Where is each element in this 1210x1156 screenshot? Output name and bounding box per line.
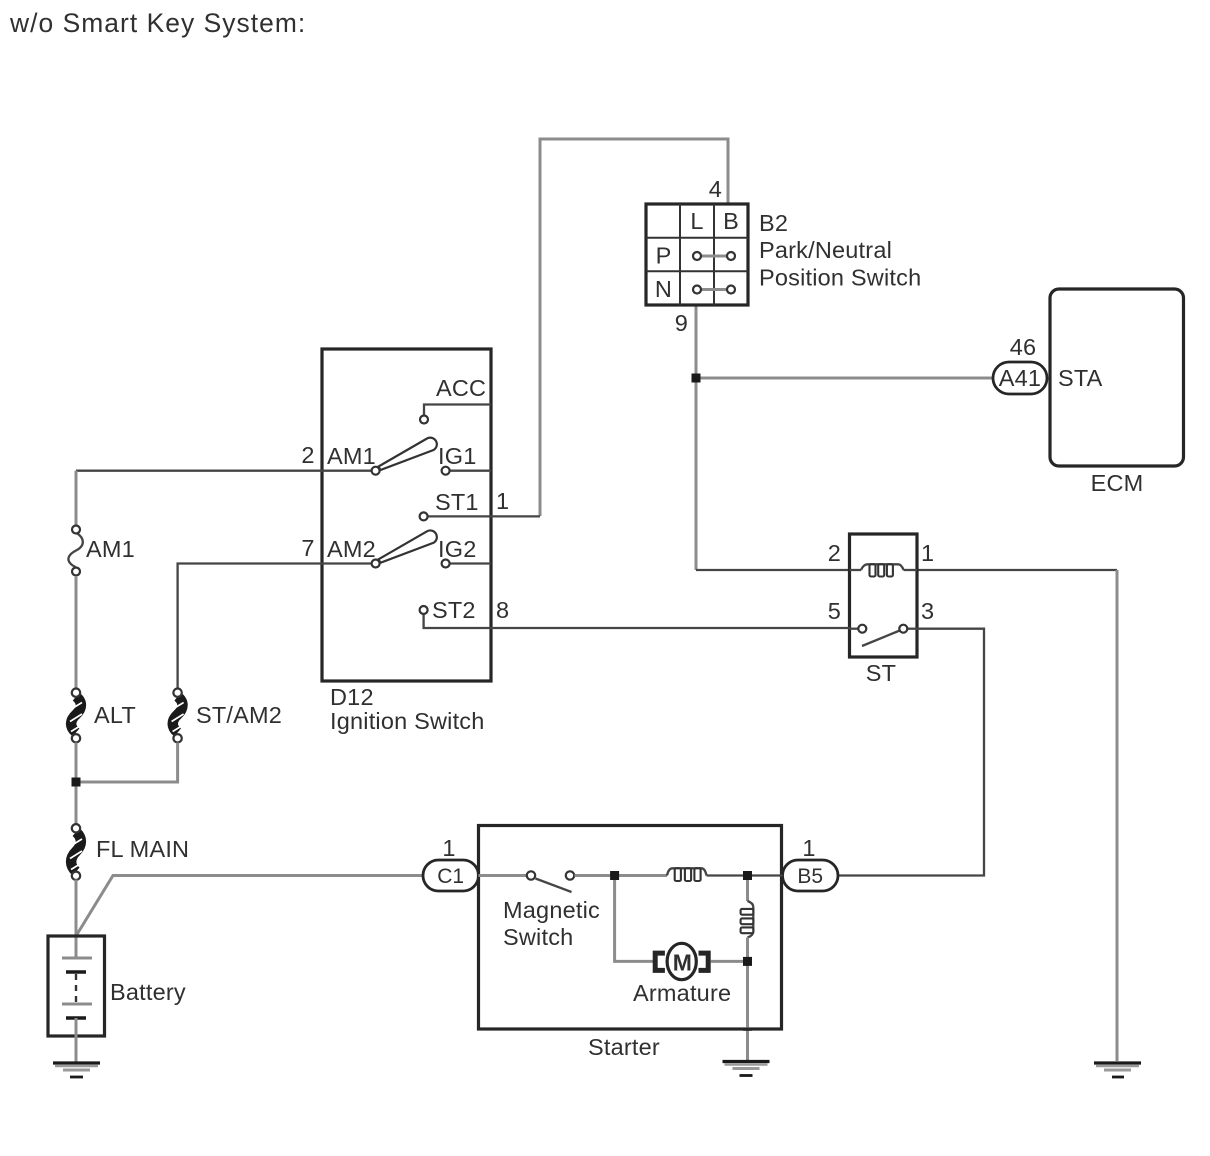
connector B5 — [783, 860, 839, 891]
svg-text:9: 9 — [675, 310, 688, 336]
svg-text:P: P — [656, 243, 672, 269]
svg-text:2: 2 — [301, 442, 314, 468]
svg-text:ECM: ECM — [1091, 470, 1144, 496]
svg-text:Starter: Starter — [588, 1034, 660, 1060]
relay ST box — [850, 534, 918, 657]
ignition switch D12 box — [322, 349, 491, 681]
svg-text:C1: C1 — [437, 865, 464, 888]
connector A41 — [993, 362, 1047, 394]
contact P row — [693, 252, 735, 260]
coil hold-in (vertical) — [741, 876, 754, 961]
contact N row — [693, 286, 735, 294]
label B2 Park/Neutral Position Switch — [759, 210, 921, 291]
contact ST2 and wire to relay pin 5 — [420, 597, 850, 628]
svg-text:1: 1 — [496, 488, 509, 514]
svg-text:B5: B5 — [797, 865, 823, 888]
wire junction to connector A41 — [696, 377, 993, 380]
ground starter — [723, 1062, 770, 1076]
ground right — [1094, 1063, 1141, 1077]
svg-text:AM1: AM1 — [327, 443, 376, 469]
svg-text:7: 7 — [301, 535, 314, 561]
wire AM1 net (pin 2) — [76, 470, 372, 472]
key wedge AM2-IG2 — [379, 530, 437, 562]
svg-text:1: 1 — [921, 540, 934, 566]
svg-text:FL MAIN: FL MAIN — [96, 836, 189, 862]
fuse AM1 — [68, 526, 82, 576]
wire AM1 vertical chain — [75, 471, 78, 526]
wire battery positive run to starter C1 — [76, 876, 423, 937]
svg-text:ST1: ST1 — [435, 489, 479, 515]
wire junction to FL MAIN — [75, 782, 78, 825]
wire C1 to magnetic switch — [479, 874, 527, 877]
svg-text:A41: A41 — [999, 365, 1041, 391]
wire ST/AM2 to junction — [76, 743, 178, 783]
wire FL MAIN to battery — [75, 880, 78, 959]
motor armature M — [655, 943, 708, 979]
svg-text:B: B — [723, 208, 739, 234]
wire ALT to junction — [75, 743, 78, 783]
svg-text:ST2: ST2 — [432, 597, 476, 623]
wire junction2 to B5 — [748, 874, 783, 876]
wire relay pin 3 to B5 — [838, 629, 984, 876]
wire right riser to ground — [1116, 570, 1119, 1061]
wire junction down to relay row — [695, 378, 698, 570]
connector C1 — [423, 860, 479, 891]
svg-text:ST/AM2: ST/AM2 — [196, 702, 282, 728]
svg-text:D12: D12 — [330, 684, 374, 710]
ground battery — [53, 1063, 100, 1077]
node junction pin9/STA — [692, 374, 701, 383]
contact AM1 — [372, 467, 380, 475]
svg-text:M: M — [673, 949, 692, 975]
svg-text:ACC: ACC — [436, 375, 486, 401]
key wedge AM1-IG1 — [379, 438, 437, 470]
node junction3 armature out — [743, 957, 752, 966]
wire coil to junction2 — [707, 874, 748, 876]
svg-text:1: 1 — [442, 835, 455, 861]
ACC contact — [420, 375, 491, 424]
svg-text:2: 2 — [828, 540, 841, 566]
svg-text:STA: STA — [1058, 365, 1103, 391]
svg-text:Battery: Battery — [110, 979, 186, 1005]
wire junction1 to hold-in coil — [615, 874, 667, 877]
battery — [48, 936, 105, 1036]
relay coil — [850, 564, 918, 576]
svg-text:w/o Smart Key System:: w/o Smart Key System: — [9, 8, 306, 38]
svg-text:8: 8 — [496, 597, 509, 623]
svg-text:5: 5 — [828, 598, 841, 624]
wire battery to ground — [75, 1018, 78, 1062]
starter box — [479, 826, 782, 1030]
node junction battery net — [72, 778, 81, 787]
park/neutral position switch B2 — [646, 204, 748, 305]
wire ST1 riser to PNP pin 4 — [540, 139, 728, 516]
fusible link ST/AM2 — [172, 689, 185, 743]
svg-text:IG1: IG1 — [438, 443, 476, 469]
svg-text:3: 3 — [921, 598, 934, 624]
starter box border over ground wire — [743, 1028, 752, 1031]
node junction2 coil to B5 — [743, 871, 752, 880]
svg-text:AM2: AM2 — [327, 536, 376, 562]
svg-text:AM1: AM1 — [86, 536, 135, 562]
fusible link ALT — [70, 689, 83, 743]
svg-text:Ignition Switch: Ignition Switch — [330, 708, 485, 734]
wire motor to junction3 — [711, 960, 748, 963]
wire relay pin 1 to right riser — [917, 569, 1117, 571]
svg-text:4: 4 — [709, 176, 722, 202]
contact AM2 — [372, 560, 380, 568]
svg-text:ST: ST — [866, 660, 896, 686]
svg-text:L: L — [690, 208, 703, 234]
svg-text:1: 1 — [802, 835, 815, 861]
magnetic switch contacts — [527, 871, 574, 892]
coil pull-in (horizontal) — [667, 868, 707, 881]
contact ST1 — [420, 489, 540, 520]
svg-text:IG2: IG2 — [438, 536, 476, 562]
svg-text:N: N — [655, 276, 672, 302]
wire PNP pin 9 to junction — [695, 305, 698, 378]
wire junction1 down to armature — [615, 876, 653, 962]
svg-text:B2: B2 — [759, 210, 788, 236]
wire junction3 to ground — [746, 961, 749, 1060]
svg-text:Switch: Switch — [503, 924, 573, 950]
wire switch to junction1 — [575, 874, 615, 877]
svg-text:Position Switch: Position Switch — [759, 265, 921, 291]
svg-text:Park/Neutral: Park/Neutral — [759, 237, 892, 263]
wire AM1 fuse to ALT — [75, 576, 78, 689]
svg-text:46: 46 — [1010, 334, 1037, 360]
svg-text:Armature: Armature — [633, 980, 731, 1006]
wire AM2 net (pin 7) — [178, 564, 372, 689]
wire relay pin 2 — [696, 569, 850, 571]
contact IG2 — [442, 560, 491, 568]
relay switch contacts — [850, 625, 918, 646]
fusible link FL MAIN — [70, 824, 83, 880]
svg-text:ALT: ALT — [94, 702, 136, 728]
ECM box — [1050, 289, 1184, 496]
node junction1 magnetic switch out — [610, 871, 619, 880]
svg-text:Magnetic: Magnetic — [503, 897, 600, 923]
contact IG1 — [442, 467, 491, 475]
